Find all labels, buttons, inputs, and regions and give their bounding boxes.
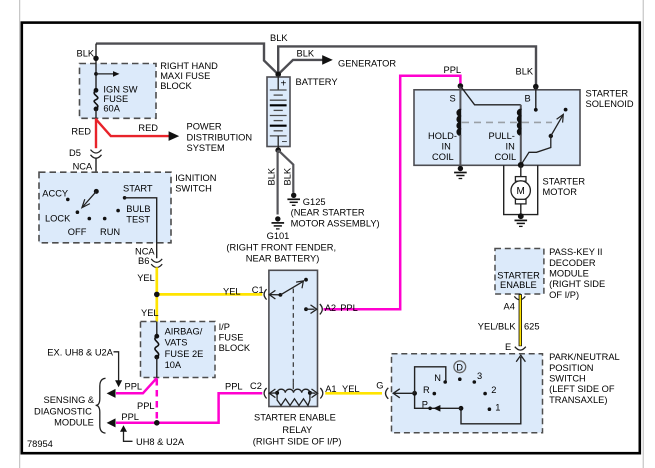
wire B contact: [535, 87, 537, 110]
svg-text:BULB: BULB: [126, 204, 150, 214]
svg-text:C1: C1: [252, 285, 264, 295]
svg-text:TRANSAXLE): TRANSAXLE): [549, 395, 607, 405]
svg-text:E: E: [505, 342, 511, 352]
wire S to pull-in coil: [460, 86, 520, 105]
relay coil resistor: [277, 393, 310, 406]
connector E: [515, 347, 526, 350]
svg-text:IGNITION: IGNITION: [175, 173, 216, 183]
contact 2: [483, 392, 487, 396]
coil hold-in bumps: [457, 110, 460, 116]
wire: RED branch to power distribution: [96, 119, 169, 136]
svg-text:BATTERY: BATTERY: [296, 77, 338, 87]
svg-text:STARTER: STARTER: [586, 89, 629, 99]
wire D5 to ignition switch: [95, 158, 97, 191]
pass-key II decoder module box: [495, 249, 544, 295]
terminal B dot: [533, 84, 539, 90]
fuse AIRBAG/VATS 2E 10A: [154, 334, 159, 339]
svg-text:RUN: RUN: [100, 227, 120, 237]
svg-text:STARTER: STARTER: [543, 176, 586, 186]
svg-text:A2: A2: [325, 303, 336, 313]
page column rule left: [19, 0, 21, 468]
svg-text:N: N: [434, 373, 441, 383]
svg-text:PPL: PPL: [340, 303, 358, 313]
svg-text:OF I/P): OF I/P): [549, 290, 579, 300]
right hand maxi fuse block box: [80, 64, 157, 119]
svg-text:60A: 60A: [103, 103, 120, 113]
svg-text:SENSING &: SENSING &: [44, 395, 95, 405]
starter motor M: [520, 165, 522, 177]
contact 3: [473, 380, 477, 384]
svg-text:PARK/NEUTRAL: PARK/NEUTRAL: [549, 352, 620, 362]
wire: YEL A1 to park/neutral G: [325, 392, 382, 395]
contact R: [433, 392, 437, 396]
svg-text:ENABLE: ENABLE: [500, 280, 537, 290]
svg-text:BLK: BLK: [283, 167, 293, 185]
svg-text:78954: 78954: [27, 439, 53, 449]
svg-text:M: M: [517, 186, 525, 197]
ignition contact LOCK: [76, 210, 80, 214]
svg-text:SOLENOID: SOLENOID: [586, 99, 634, 109]
ignition contact RUN: [103, 217, 107, 221]
svg-text:10A: 10A: [165, 360, 182, 370]
arrow to sensing module bottom: [107, 418, 116, 427]
svg-text:3: 3: [477, 371, 482, 381]
svg-text:PPL: PPL: [225, 381, 243, 391]
wire: YEL junction down to I/P fuse block: [155, 294, 158, 322]
ignition switch box: [39, 172, 171, 243]
motor feed junction dot: [518, 162, 524, 168]
svg-text:C2: C2: [250, 381, 262, 391]
svg-text:ACCY: ACCY: [42, 188, 68, 198]
svg-text:TEST: TEST: [126, 215, 150, 225]
svg-text:(NEAR STARTER: (NEAR STARTER: [291, 208, 365, 218]
ground G125: [287, 193, 300, 206]
wire to N contact: [415, 367, 446, 394]
svg-text:PPL: PPL: [444, 65, 462, 75]
svg-text:IN: IN: [442, 142, 451, 152]
svg-text:IN: IN: [506, 142, 515, 152]
svg-text:I/P: I/P: [219, 322, 230, 332]
connector A1: [320, 388, 323, 398]
starter solenoid box: [414, 90, 580, 166]
svg-text:D5: D5: [69, 148, 81, 158]
svg-text:COIL: COIL: [432, 152, 454, 162]
solenoid switch arm: [549, 134, 553, 138]
svg-text:UH8 & U2A: UH8 & U2A: [136, 437, 185, 447]
svg-text:BLK: BLK: [267, 167, 277, 185]
connector A4: [514, 296, 525, 299]
wire: BLK top bus right segment to solenoid B: [278, 46, 536, 87]
contact 1: [488, 407, 492, 411]
relay coil winding: [277, 389, 310, 393]
svg-text:SWITCH: SWITCH: [175, 183, 212, 193]
svg-text:VATS: VATS: [165, 338, 188, 348]
svg-text:PASS-KEY II: PASS-KEY II: [549, 247, 602, 257]
svg-text:HOLD-: HOLD-: [428, 131, 457, 141]
svg-text:+: +: [281, 79, 287, 90]
svg-text:LOCK: LOCK: [45, 214, 71, 224]
svg-text:NCA: NCA: [73, 162, 93, 172]
junction dot at block entry: [93, 56, 98, 61]
park/neutral position switch box: [392, 354, 543, 433]
svg-text:NEAR BATTERY): NEAR BATTERY): [246, 253, 320, 263]
svg-text:FUSE: FUSE: [219, 332, 244, 342]
svg-text:YEL/BLK: YEL/BLK: [478, 322, 517, 332]
wire E down inside switch: [461, 357, 521, 424]
svg-text:BLOCK: BLOCK: [160, 81, 192, 91]
svg-text:G: G: [376, 381, 383, 391]
junction dot PPL: [154, 420, 160, 426]
svg-text:PPL: PPL: [137, 401, 155, 411]
wire: PPL junction to relay C2: [157, 393, 262, 423]
wire: BLK branch to generator: [278, 60, 322, 75]
terminal S dot: [458, 83, 464, 89]
svg-text:BLOCK: BLOCK: [219, 343, 251, 353]
motor ground: [515, 213, 528, 226]
contact N: [443, 380, 447, 384]
fuse IGN SW FUSE 60A: [94, 88, 99, 93]
wire: YEL junction to relay C1: [157, 293, 262, 296]
svg-text:2: 2: [491, 385, 496, 395]
svg-text:POWER: POWER: [187, 122, 222, 132]
wire: YEL/BLK 625: [519, 294, 522, 346]
battery top stem: [277, 75, 279, 90]
plunger dashed link: [462, 121, 552, 123]
svg-text:DIAGNOSTIC: DIAGNOSTIC: [34, 406, 92, 416]
svg-text:STARTER ENABLE: STARTER ENABLE: [254, 413, 336, 423]
svg-text:BLK: BLK: [77, 49, 95, 59]
svg-text:G125: G125: [303, 197, 326, 207]
wire: YEL B6 down to junction: [155, 267, 158, 294]
svg-text:MAXI FUSE: MAXI FUSE: [160, 71, 210, 81]
svg-text:YEL: YEL: [223, 286, 241, 296]
svg-text:1: 1: [495, 402, 500, 412]
svg-text:625: 625: [524, 322, 540, 332]
ground G101: [272, 216, 285, 229]
relay contact A2: [304, 307, 308, 311]
connector C1: [264, 289, 267, 299]
svg-text:DISTRIBUTION: DISTRIBUTION: [187, 132, 253, 142]
svg-text:RIGHT HAND: RIGHT HAND: [160, 61, 218, 71]
ignition switch wiper: [94, 189, 99, 194]
svg-text:R: R: [423, 385, 430, 395]
relay switch arm C1: [269, 290, 275, 299]
arrow to sensing module top: [107, 389, 116, 398]
hold-in coil wire: [459, 86, 461, 110]
wire: RED fuse output down: [95, 118, 97, 148]
connector B6: [151, 259, 162, 262]
svg-text:BLK: BLK: [270, 33, 288, 43]
svg-text:PPL: PPL: [125, 382, 143, 392]
switch path dot: [459, 406, 464, 411]
arrow to power distribution system: [169, 131, 180, 141]
I/P fuse block box: [141, 322, 216, 378]
svg-text:S: S: [450, 94, 456, 104]
solenoid switch link to motor feed: [521, 136, 551, 165]
ignition contact ACCY: [66, 198, 70, 202]
connector C2: [264, 388, 267, 398]
wire fuse to box bottom: [156, 357, 158, 378]
wire: BLK battery to G125: [278, 150, 293, 193]
svg-text:(RIGHT FRONT FENDER,: (RIGHT FRONT FENDER,: [226, 242, 336, 252]
relay C2 arrow: [269, 389, 275, 398]
svg-text:EX. UH8 & U2A: EX. UH8 & U2A: [47, 348, 113, 358]
svg-text:SWITCH: SWITCH: [549, 374, 586, 384]
junction dot G path: [412, 391, 417, 396]
svg-text:(LEFT SIDE OF: (LEFT SIDE OF: [549, 384, 615, 394]
svg-text:MOTOR ASSEMBLY): MOTOR ASSEMBLY): [291, 218, 380, 228]
relay actuator dashed: [292, 289, 294, 383]
battery bottom stem: [277, 136, 279, 148]
svg-text:OFF: OFF: [68, 227, 87, 237]
starter motor frame: [504, 165, 538, 214]
svg-text:RED: RED: [138, 123, 158, 133]
svg-text:START: START: [123, 184, 153, 194]
solenoid case ground: [454, 166, 467, 179]
svg-text:PULL-: PULL-: [489, 131, 515, 141]
svg-text:BLK: BLK: [297, 48, 315, 58]
wire: PPL dashed (UH8,U2A): [156, 379, 159, 423]
wire: BLK battery to G101: [277, 150, 279, 214]
connector D5: [91, 150, 102, 153]
contact P: [428, 407, 432, 411]
svg-text:MOTOR: MOTOR: [543, 187, 578, 197]
svg-text:POSITION: POSITION: [549, 363, 593, 373]
wire fuse to box bottom: [95, 109, 97, 119]
svg-text:IGN SW: IGN SW: [103, 84, 137, 94]
battery B+ junction dot: [275, 72, 281, 78]
svg-text:FUSE 2E: FUSE 2E: [165, 349, 204, 359]
coil pull-in bumps: [520, 105, 522, 110]
svg-text:RED: RED: [71, 127, 91, 137]
svg-text:YEL: YEL: [137, 273, 155, 283]
svg-text:STARTER: STARTER: [497, 270, 540, 280]
svg-text:FUSE: FUSE: [103, 94, 128, 104]
arrowhead at P: [433, 405, 440, 412]
svg-text:−: −: [282, 137, 288, 148]
svg-text:G101: G101: [267, 231, 290, 241]
tap dot with arrow: [94, 72, 98, 76]
wire: PPL solid to sensing module (ex. UH8,U2A): [116, 378, 157, 393]
junction dot yellow: [154, 292, 160, 298]
connector G: [386, 388, 389, 399]
contact D with circle: [454, 361, 466, 373]
starter enable relay box: [269, 270, 318, 406]
svg-text:MODULE: MODULE: [54, 418, 94, 428]
relay A1 arrow: [310, 392, 316, 394]
svg-text:DECODER: DECODER: [549, 258, 596, 268]
arrow to generator: [322, 55, 333, 65]
battery B- junction dot: [275, 147, 281, 153]
wire: BLK top bus left segment: [96, 44, 278, 75]
svg-text:MODULE: MODULE: [549, 269, 589, 279]
svg-text:SYSTEM: SYSTEM: [187, 143, 225, 153]
wire START output: [125, 198, 157, 258]
wire into fuse: [156, 322, 158, 337]
connector A2: [320, 304, 323, 314]
wire: PPL junction to sensing module bottom: [116, 422, 157, 425]
wire P row: [415, 393, 461, 408]
svg-text:(RIGHT SIDE OF I/P): (RIGHT SIDE OF I/P): [253, 436, 342, 446]
svg-text:A4: A4: [504, 301, 515, 311]
svg-text:PPL: PPL: [121, 412, 139, 422]
wire into fuse block: [95, 44, 97, 91]
svg-text:AIRBAG/: AIRBAG/: [165, 326, 203, 336]
battery BATTERY box: [267, 77, 290, 147]
svg-text:YEL: YEL: [141, 308, 159, 318]
wire to G with arrow: [395, 392, 415, 394]
ignition contact BULB TEST: [116, 209, 120, 213]
brace sensing module: [96, 378, 106, 433]
battery plates: [270, 90, 287, 136]
arrow up to E: [516, 355, 525, 362]
svg-text:P: P: [422, 400, 428, 410]
svg-text:D: D: [456, 362, 463, 372]
svg-text:B: B: [525, 94, 531, 104]
page column rule right: [642, 0, 644, 468]
svg-text:COIL: COIL: [495, 152, 517, 162]
ignition contact START: [123, 196, 127, 200]
wire: PPL relay A2 up to solenoid S: [324, 76, 461, 309]
svg-text:B6: B6: [138, 256, 149, 266]
svg-text:RELAY: RELAY: [282, 425, 312, 435]
svg-text:GENERATOR: GENERATOR: [338, 59, 396, 69]
svg-text:BLK: BLK: [516, 67, 534, 77]
solenoid fixed contact: [564, 108, 568, 112]
svg-text:(RIGHT SIDE: (RIGHT SIDE: [549, 279, 605, 289]
ignition contact OFF: [88, 217, 92, 221]
